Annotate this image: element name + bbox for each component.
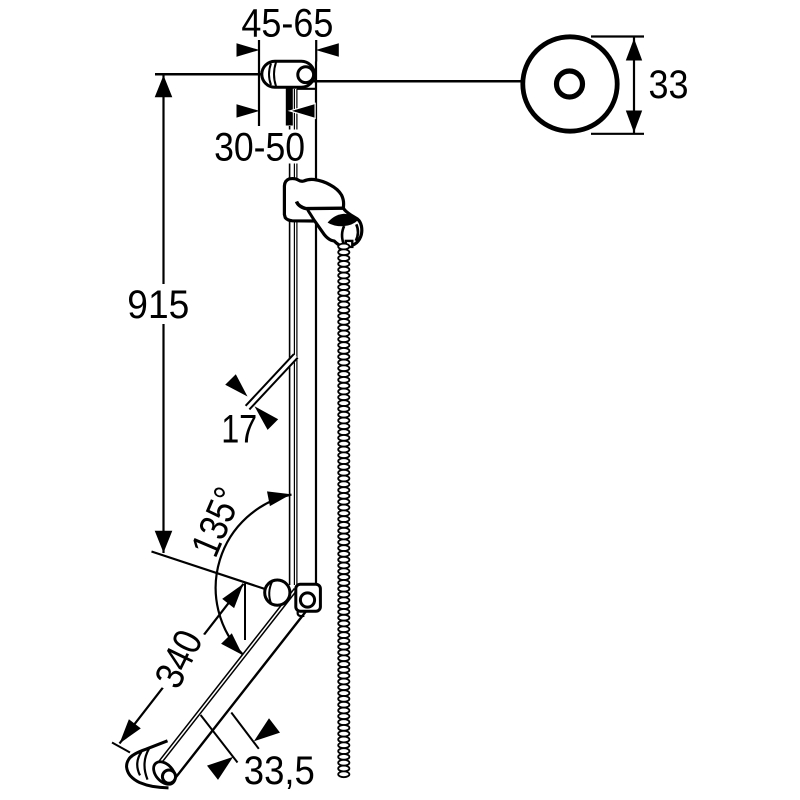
svg-text:30-50: 30-50 [214, 126, 305, 170]
svg-text:33: 33 [649, 63, 689, 107]
svg-text:17: 17 [221, 407, 257, 451]
svg-text:33,5: 33,5 [244, 749, 315, 793]
svg-text:915: 915 [127, 283, 189, 327]
svg-text:45-65: 45-65 [241, 1, 333, 45]
